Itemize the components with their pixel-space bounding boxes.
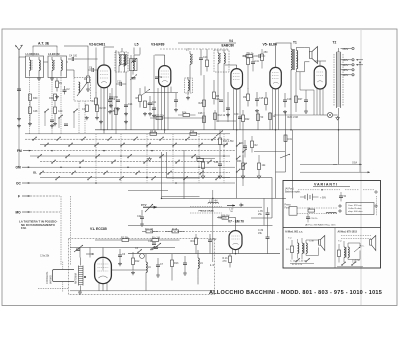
svg-text:C49: C49 (58, 110, 63, 113)
capacitor C21 (137, 210, 144, 222)
wire left bus (23, 57, 88, 78)
resistor R7 (206, 55, 209, 72)
mains plug (356, 59, 363, 66)
svg-text:C.38: C.38 (309, 241, 314, 243)
AF rail dashed (150, 230, 230, 232)
variant tiny labels left (288, 238, 314, 243)
label OC (16, 181, 30, 185)
box L5a (120, 55, 127, 66)
capacitor C27 (226, 108, 230, 117)
capacitor C43 (239, 140, 247, 157)
svg-text:R12: R12 (135, 260, 140, 263)
wire V6 bottom (319, 89, 321, 115)
tube pin drops (99, 86, 323, 290)
svg-text:ANTENNA: ANTENNA (75, 273, 78, 284)
svg-text:P.TV: P.TV (141, 203, 147, 207)
pot arrow tone (280, 154, 290, 158)
svg-text:Batteria registr.: Batteria registr. (285, 191, 301, 194)
variant dashes right cell (341, 236, 371, 239)
resistor R13 (219, 130, 234, 159)
resistor R28 (261, 49, 269, 69)
svg-text:R20 1M: R20 1M (218, 217, 226, 220)
svg-text:V2-ECH81: V2-ECH81 (89, 43, 105, 47)
svg-text:R33: R33 (237, 160, 242, 163)
ratio detector can (214, 50, 229, 72)
resistor on row R5b (190, 130, 197, 135)
capacitor C56 (109, 96, 119, 108)
svg-text:Al Mod. 801 c.s.: Al Mod. 801 c.s. (285, 231, 303, 234)
svg-text:R27: R27 (298, 98, 303, 101)
svg-text:R12 1k: R12 1k (218, 114, 226, 117)
svg-text:R2 56k: R2 56k (121, 237, 129, 240)
svg-text:Al Mod. 975-1015: Al Mod. 975-1015 (338, 231, 358, 234)
svg-text:C30: C30 (234, 113, 239, 116)
variant coil LB (326, 212, 336, 213)
capacitor C57 (116, 100, 120, 111)
wire grid bus (88, 48, 98, 71)
svg-text:ALLOCCHIO BACCHINI - MODD. 801: ALLOCCHIO BACCHINI - MODD. 801 - 803 - 9… (209, 290, 382, 296)
electrolytic C35 (258, 207, 270, 225)
volume pot (145, 204, 153, 212)
svg-text:R19: R19 (191, 240, 196, 243)
bracket under A.T. 3E (33, 46, 88, 48)
coil L7 (190, 51, 193, 92)
switch contacts band C (39, 171, 219, 180)
antenna (16, 45, 24, 117)
wire V5 top (276, 43, 292, 67)
svg-text:C28: C28 (198, 112, 203, 115)
tuning gang CONDENS VARIAB (38, 256, 74, 292)
svg-text:C43: C43 (239, 142, 244, 145)
svg-text:C15: C15 (259, 97, 264, 100)
tube V3 EF89 (159, 66, 171, 87)
scan fold line (360, 29, 362, 305)
tube V5 EL84 (270, 67, 281, 88)
FM unit enclosure (69, 239, 215, 295)
capacitor C28 (304, 90, 308, 113)
speaker (304, 47, 317, 72)
trimmer on row (216, 131, 223, 137)
svg-text:140V: 140V (343, 64, 349, 67)
ground coil (78, 291, 82, 295)
svg-text:C23: C23 (117, 81, 122, 84)
svg-text:R7a: R7a (196, 156, 201, 159)
svg-text:TH.: TH. (230, 211, 234, 213)
svg-text:C34: C34 (214, 161, 219, 164)
wire matrix verticals (96, 134, 224, 183)
svg-text:C50 1k: C50 1k (311, 218, 319, 220)
label presa giradischi (190, 207, 222, 213)
coil L6 (146, 254, 151, 280)
svg-text:C41: C41 (255, 60, 260, 63)
coil antenna FM (75, 258, 87, 291)
line above rail (150, 117, 204, 119)
arrow L10 out (227, 204, 235, 213)
svg-text:L 4: L 4 (210, 263, 214, 267)
wire mains drop (359, 63, 361, 164)
tap 125V (341, 69, 355, 72)
variant dashed rows (297, 208, 337, 213)
osc coil box L3 (115, 52, 128, 72)
tube V4 EABC80 (231, 69, 243, 89)
switch contacts band B (37, 154, 211, 163)
svg-text:Cuffia 2k ohm: Cuffia 2k ohm (348, 208, 362, 210)
svg-text:C26: C26 (215, 98, 220, 101)
resistor R12 (132, 252, 141, 271)
trimmer arrow C5 (74, 245, 83, 252)
wire V7 top (222, 178, 272, 231)
svg-text:VARIANTI: VARIANTI (314, 183, 338, 187)
dashed rail top (160, 48, 228, 50)
coil L1b (39, 57, 40, 76)
resistor R16 (217, 214, 235, 219)
ground V2 col (99, 120, 103, 124)
resistor R1 (56, 78, 63, 92)
coil L1a (30, 57, 33, 76)
svg-text:R11: R11 (243, 55, 248, 58)
svg-text:250: 250 (264, 51, 269, 54)
resistor R22 (242, 110, 251, 130)
variant plus marks (374, 190, 378, 216)
svg-text:R. 50 1.2k: R. 50 1.2k (292, 264, 303, 266)
label FM (17, 149, 31, 153)
resistor R2b2 (95, 98, 107, 120)
IF can L2 box (48, 52, 67, 78)
svg-text:C18: C18 (287, 98, 292, 101)
resistor R24 (284, 135, 293, 142)
svg-text:R14: R14 (182, 112, 187, 115)
svg-text:Fono: Fono (285, 207, 291, 209)
wire below ratio det (204, 72, 228, 122)
capacitor C24 (124, 103, 133, 106)
resistor R2a (82, 105, 89, 120)
svg-text:R26: R26 (199, 102, 204, 105)
svg-text:FM: FM (17, 149, 22, 153)
resistor R25 (111, 108, 118, 115)
wire dial lines (300, 163, 362, 165)
svg-text:R.18: R.18 (172, 228, 178, 231)
svg-text:T.U.: T.U. (338, 241, 342, 243)
svg-text:R.6 1M: R.6 1M (145, 228, 153, 231)
ground R1 (55, 95, 59, 99)
svg-text:C16 5k: C16 5k (246, 53, 254, 56)
svg-text:110V: 110V (343, 74, 349, 77)
wire L5 drop (122, 48, 140, 56)
svg-text:Presa: Presa (285, 204, 292, 207)
AF rail 1 (161, 197, 286, 199)
svg-text:C29: C29 (148, 240, 153, 243)
svg-text:(Al Pos.) SM RADIO Reg. 1015: (Al Pos.) SM RADIO Reg. 1015 (305, 224, 336, 227)
svg-text:V4: V4 (229, 39, 233, 43)
variant resistor RB2 (308, 209, 315, 213)
capacitor C20 (183, 256, 187, 271)
capacitor C14 (174, 93, 178, 107)
capacitor C11 (148, 96, 157, 110)
pilot lamp (320, 112, 338, 117)
svg-text:R4 2k: R4 2k (150, 130, 157, 133)
ground L2 (50, 77, 54, 81)
wire top mid verticals (96, 48, 158, 135)
power transformer T2 (334, 48, 343, 130)
resistor R4 (92, 92, 98, 111)
switch row 9 (40, 176, 230, 178)
capacitor C17 (256, 54, 265, 58)
resistor R14 (178, 112, 196, 117)
ground hang (148, 157, 152, 161)
ground C24 (124, 112, 128, 116)
wire left drops (61, 196, 71, 265)
wire V6 top (314, 61, 326, 66)
wire x213 drop (212, 190, 214, 262)
resistor R9b (143, 101, 155, 116)
note text (19, 219, 57, 230)
capacitor C41 (251, 56, 260, 71)
svg-text:V3-EF89: V3-EF89 (151, 43, 164, 47)
tap 140V (341, 64, 355, 67)
ground lamp (336, 116, 340, 120)
trimmer mid (142, 89, 150, 95)
svg-text:T2: T2 (333, 41, 337, 45)
svg-text:R31: R31 (49, 97, 54, 100)
variant extra winding left (298, 239, 299, 258)
svg-text:altop. 600 ohm: altop. 600 ohm (348, 210, 363, 213)
svg-text:L5: L5 (135, 43, 139, 47)
svg-text:C.41 50: C.41 50 (352, 260, 360, 262)
capacitor on antenna line (17, 89, 21, 128)
svg-text:L.10 4H: L.10 4H (209, 200, 218, 203)
capacitor C9 (108, 93, 116, 107)
variant transformer right (344, 241, 360, 262)
capacitor C6 (118, 249, 126, 262)
capacitor C8 (88, 67, 98, 73)
variant resistor RB1 (285, 204, 298, 216)
wire V3 top (155, 55, 165, 133)
svg-text:Cam. 378 con: Cam. 378 con (348, 205, 362, 207)
variant caption row (305, 224, 336, 227)
resistor R11b (243, 52, 250, 89)
choke L10 (208, 200, 218, 204)
wire V7 bottom (235, 250, 237, 254)
value labels scatter (36, 56, 327, 285)
tube V2 ECH81 (98, 65, 111, 88)
variant switch left (290, 258, 314, 263)
svg-text:OSA: OSA (352, 161, 357, 164)
coil L2b (61, 57, 62, 76)
svg-text:V7 - EM 70: V7 - EM 70 (228, 220, 244, 224)
wire top rail (178, 42, 236, 44)
variant dashed feed (298, 189, 375, 191)
variant tiny labels right (338, 241, 365, 264)
AF rail 3 (128, 224, 273, 226)
wire V4 bottom (236, 89, 238, 130)
main bottom rail (128, 253, 280, 255)
svg-text:270: 270 (223, 260, 228, 263)
tube V1 ECC85 (95, 257, 112, 283)
svg-text:C21: C21 (137, 215, 142, 218)
svg-text:25u: 25u (258, 213, 263, 216)
switch row FM (31, 150, 235, 152)
switch row 6 (40, 160, 230, 162)
junction dots matrix (51, 150, 225, 184)
resistor R9 (243, 88, 250, 107)
svg-text:125V: 125V (343, 69, 349, 72)
svg-text:R15 22k: R15 22k (155, 115, 165, 118)
resistor R2b (251, 136, 259, 153)
wire V5 bottom (275, 89, 277, 130)
switch row 1 (25, 133, 230, 135)
svg-text:A.T. 3E: A.T. 3E (38, 42, 50, 46)
variant resistor left (286, 240, 294, 260)
svg-text:(Al Pos.): (Al Pos.) (285, 188, 294, 191)
wire heater lines (275, 114, 320, 115)
switch row 2 (25, 138, 230, 140)
ground C14 (174, 108, 178, 112)
ground C18 (283, 110, 287, 114)
wire can drops (30, 78, 86, 134)
svg-text:T1: T1 (293, 41, 297, 45)
switch row OC (30, 182, 235, 184)
right column contacts (236, 143, 247, 173)
svg-text:OC: OC (16, 181, 21, 185)
svg-text:T.U.: T.U. (288, 238, 292, 240)
wire V2 bottom (103, 88, 105, 134)
switch row 5 (30, 155, 230, 157)
variant battery (300, 194, 327, 200)
variant top right caps (339, 192, 347, 201)
wire FM top (70, 248, 175, 258)
variant cap C50 (306, 213, 318, 222)
resistor stack below can2 (49, 94, 63, 126)
variant switch right (337, 262, 363, 267)
ground row FM unit (118, 262, 122, 266)
tuner box with arrow (74, 78, 91, 102)
svg-text:C. 1k 2k C.40 25: C. 1k 2k C.40 25 (290, 261, 307, 263)
switch row 3 (40, 144, 228, 146)
capacitor C7 (156, 258, 164, 273)
switch contacts band A (32, 137, 227, 147)
coil L9 (198, 250, 203, 276)
resistor stack below can1 (28, 94, 38, 126)
label OM (16, 166, 31, 170)
wire right vertical rail (292, 130, 294, 198)
capacitor C26 (215, 98, 223, 101)
wire tone link (196, 152, 285, 159)
trimmer C10 (131, 55, 137, 66)
IF can L1 box (26, 52, 44, 78)
trimmer arrow C19 (152, 243, 161, 250)
label OL (33, 170, 37, 174)
capacitor C15 (255, 92, 264, 106)
svg-text:+ 90V: + 90V (320, 198, 327, 200)
trimmer L5b (130, 75, 137, 81)
resistor R18 (165, 228, 185, 233)
svg-text:R25: R25 (111, 110, 116, 113)
capacitor C25 (152, 108, 156, 118)
variant speaker left (319, 236, 325, 251)
svg-text:P12: P12 (190, 130, 195, 133)
svg-text:R13 1.5M: R13 1.5M (223, 140, 233, 143)
svg-text:R9 1k: R9 1k (148, 103, 155, 106)
label MO (16, 210, 61, 214)
wire x285 drop (276, 112, 286, 172)
svg-text:R23 1.5M: R23 1.5M (288, 116, 298, 119)
variant terminal block (346, 203, 374, 215)
contacts FM box top (137, 240, 156, 253)
svg-text:OM: OM (16, 166, 21, 170)
svg-text:R13: R13 (174, 262, 179, 265)
decoupling cluster row (198, 110, 276, 130)
svg-text:OL: OL (33, 170, 37, 174)
ground antenna (17, 117, 21, 121)
svg-text:C24: C24 (128, 103, 133, 106)
wire detector links (162, 150, 200, 199)
transformer T1 (291, 43, 304, 130)
wire mid verticals (201, 49, 214, 86)
B+ rail (95, 129, 360, 131)
svg-text:C.9a 25k: C.9a 25k (40, 256, 50, 258)
resistor R6 (142, 228, 159, 233)
electrolytic C36 (258, 225, 270, 253)
resistor R27 (295, 96, 304, 103)
variant bottom captions (290, 260, 360, 266)
svg-text:PRESA GIRAD.: PRESA GIRAD. (199, 209, 215, 212)
capacitor C22 (208, 234, 217, 253)
resistor R5 (136, 88, 142, 108)
coil L2a (52, 57, 55, 76)
tube V6 rectifier (314, 66, 326, 89)
ground C11 (148, 112, 152, 116)
wire mains lower (339, 130, 361, 172)
tap 110V (341, 74, 355, 77)
tube V7 (229, 231, 242, 250)
svg-text:R.b 1M: R.b 1M (152, 237, 160, 240)
capacitor C4 (68, 55, 78, 62)
variant pot right (354, 247, 360, 252)
AF rail 2 (150, 206, 262, 208)
wire V4 top (225, 65, 237, 69)
label F (18, 194, 60, 198)
resistor R3 (84, 70, 90, 88)
wire FM mid (103, 270, 198, 291)
svg-text:F.M.: F.M. (21, 226, 27, 230)
volume pot mark (141, 203, 157, 209)
ground L8 (186, 96, 190, 100)
svg-text:R2 80: R2 80 (100, 107, 107, 110)
svg-text:V1- ECC85: V1- ECC85 (90, 227, 107, 231)
wire right drops (237, 130, 276, 226)
svg-text:L1-MOD.EL: L1-MOD.EL (26, 52, 40, 56)
VARIANTI box (283, 181, 381, 269)
resistor on row R4b (150, 130, 157, 135)
svg-text:C13: C13 (203, 56, 208, 59)
svg-text:C48: C48 (33, 110, 38, 113)
svg-text:R30: R30 (33, 97, 38, 100)
svg-text:VARIAB.: VARIAB. (50, 274, 53, 284)
resistor R26 (199, 100, 206, 107)
resistor R10 (242, 53, 257, 58)
coil L8 (185, 77, 193, 95)
svg-text:V5- EL84: V5- EL84 (263, 43, 277, 47)
resistor R19 (191, 234, 198, 254)
capacitor C23 (116, 81, 126, 86)
capacitor C18 (283, 93, 292, 107)
wire V3 to V4 link (145, 86, 178, 92)
resistor R8 (213, 86, 220, 105)
variant speaker right (370, 236, 376, 251)
svg-text:L 7: L 7 (186, 48, 190, 52)
svg-text:C22: C22 (212, 238, 217, 241)
ground R3 (86, 88, 90, 92)
